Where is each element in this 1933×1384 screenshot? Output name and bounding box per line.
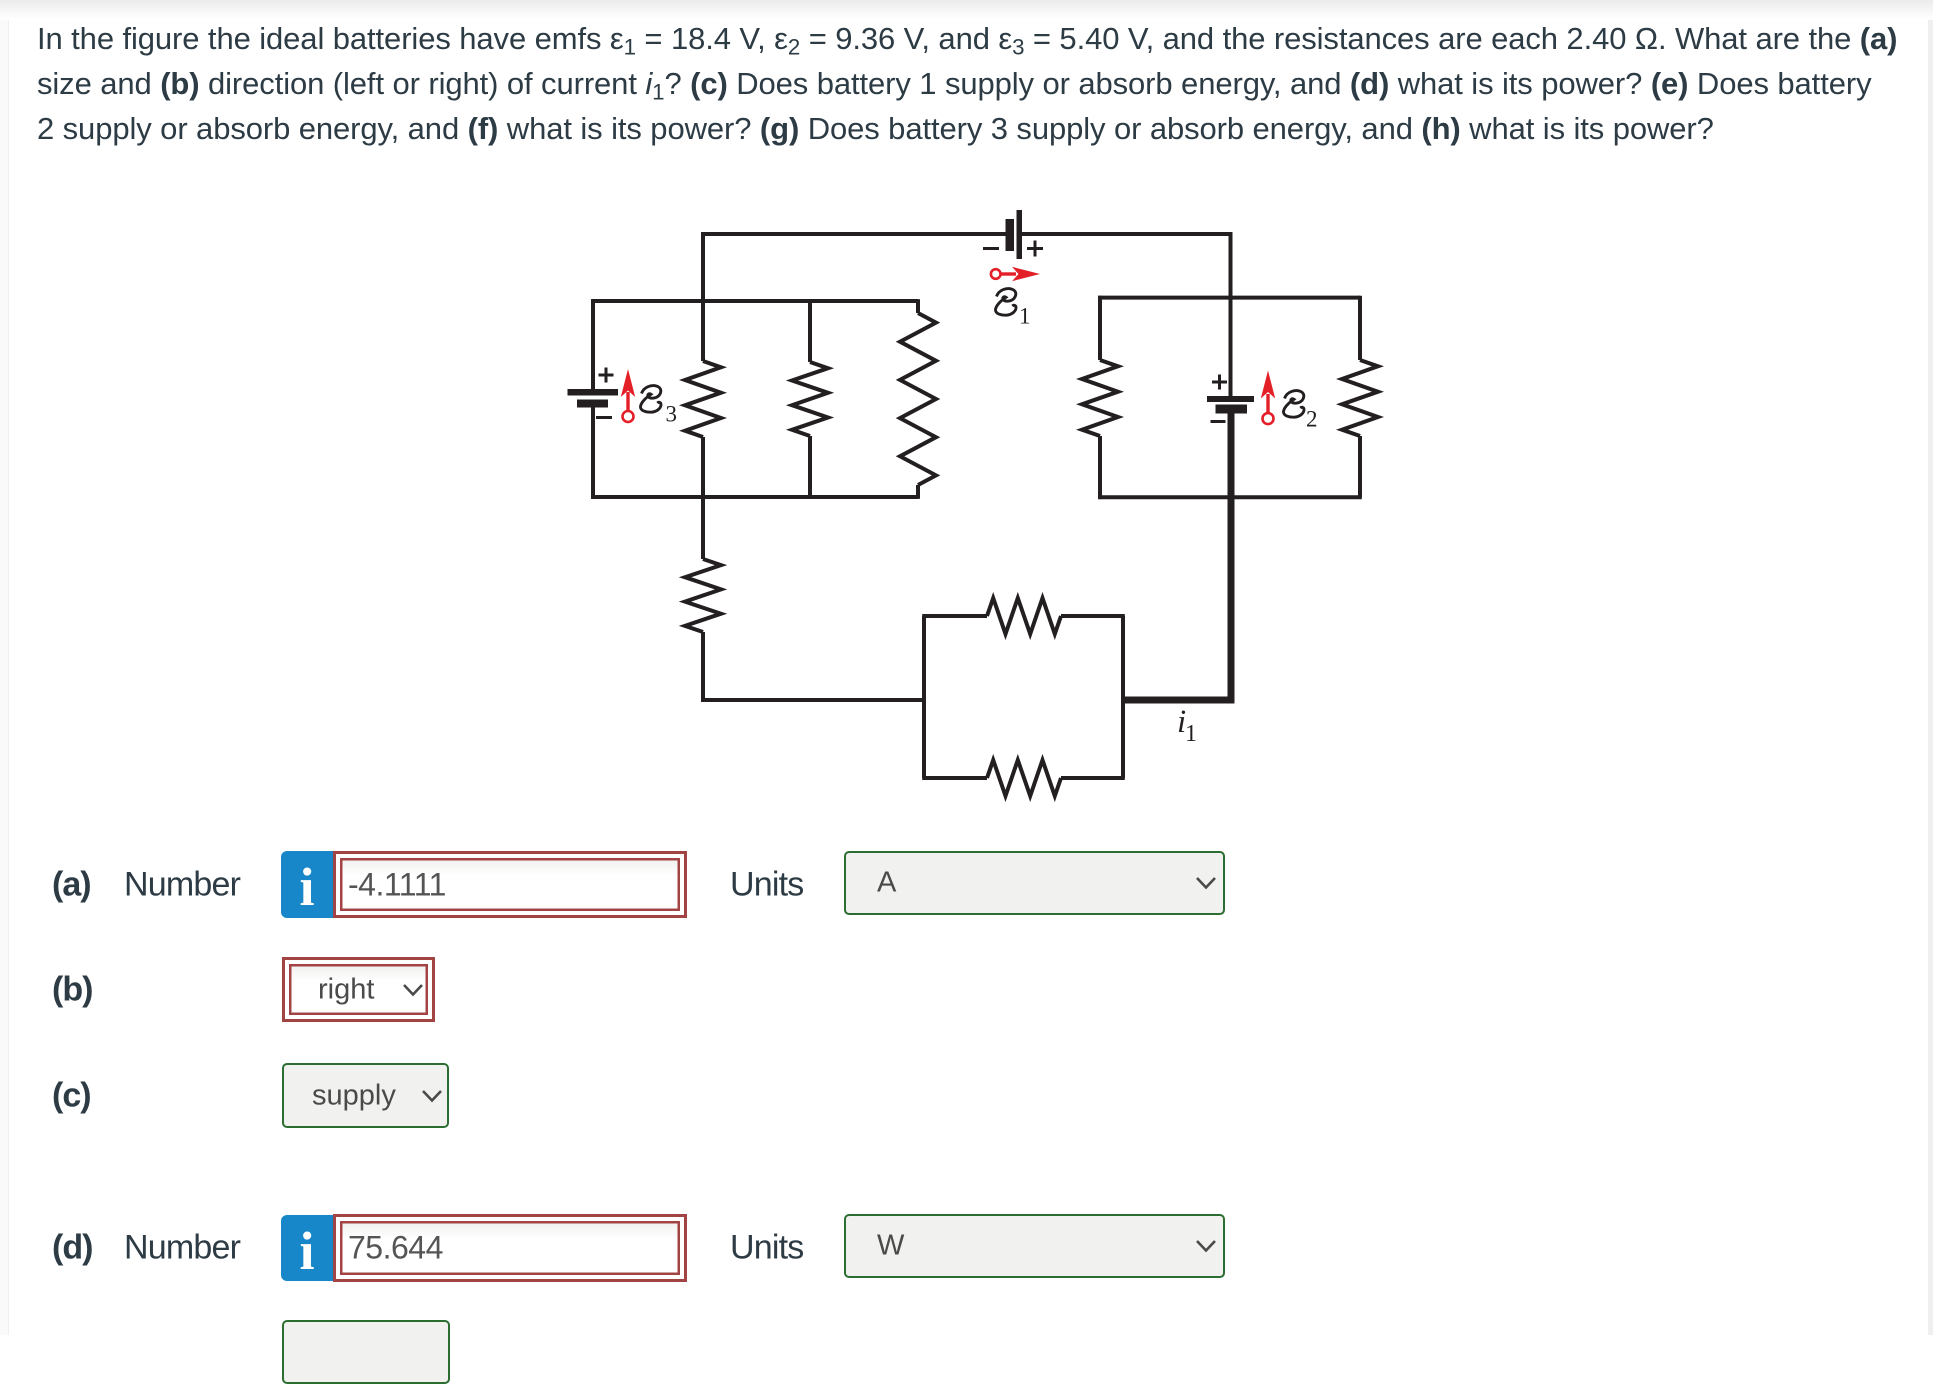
resistor R1 (left box, first parallel branch) (685, 361, 721, 437)
left box bottom edge wire (591, 495, 918, 499)
battery E3 plates (568, 389, 619, 408)
resistor R7 (lower box top) with leads (922, 614, 987, 618)
lower box right edge wire (1121, 616, 1125, 778)
battery E2 plates (1207, 396, 1254, 414)
left box top edge wire (591, 299, 918, 303)
right box bottom edge wire (1098, 495, 1362, 499)
left box left edge lower wire from battery E3 (591, 407, 595, 499)
battery E3 polarity signs (596, 368, 614, 418)
top shade gradient (0, 0, 1933, 20)
label E1 (996, 289, 1017, 316)
emf arrow E2 (red, pointing up) (1263, 394, 1274, 424)
wire i1 thick current path (1123, 412, 1231, 700)
answer row (e) partial dropdown (282, 1320, 450, 1384)
label E3 (641, 386, 662, 413)
emf arrow E1 (red, pointing right) (991, 269, 1016, 279)
resistor R3 (left box right edge, tall) (916, 299, 920, 313)
resistor R8 (lower box bottom) with leads (922, 776, 987, 780)
lower box left edge wire (922, 616, 926, 778)
label E2 (1284, 391, 1305, 418)
right gutter strip (1928, 0, 1933, 1335)
resistor R4 (between left box and bottom wire) (685, 559, 721, 632)
battery E1 plates (1006, 210, 1023, 259)
wire top-left run from node A down left branch (703, 234, 1006, 361)
left gutter strip (0, 0, 9, 1335)
battery E1 polarity signs (983, 241, 1043, 257)
wire bottom-left to lower box (703, 632, 924, 700)
wire top-right run down to battery E2 (1022, 234, 1231, 396)
resistor R6 (right box right edge) (1358, 296, 1362, 360)
wire R1 bottom through box to lower resistor (701, 437, 705, 559)
svg-text:1: 1 (1019, 304, 1031, 329)
svg-text:3: 3 (666, 402, 678, 427)
svg-text:1: 1 (1185, 721, 1197, 747)
answer row (a) (0, 851, 1933, 918)
left box left edge upper wire to battery E3 (591, 299, 595, 389)
answer row (b) (0, 957, 1933, 1022)
problem statement text (37, 16, 1897, 151)
answer row (d) (0, 1214, 1933, 1282)
resistor R2 (left box, second parallel branch) (808, 301, 812, 362)
resistor R5 (right box left edge) (1098, 296, 1102, 360)
svg-text:2: 2 (1306, 407, 1318, 432)
battery E2 polarity signs (1211, 375, 1228, 422)
emf arrow E3 (red, pointing up) (623, 392, 634, 422)
answer row (c) (0, 1063, 1933, 1128)
right box top edge wire (1098, 296, 1360, 300)
